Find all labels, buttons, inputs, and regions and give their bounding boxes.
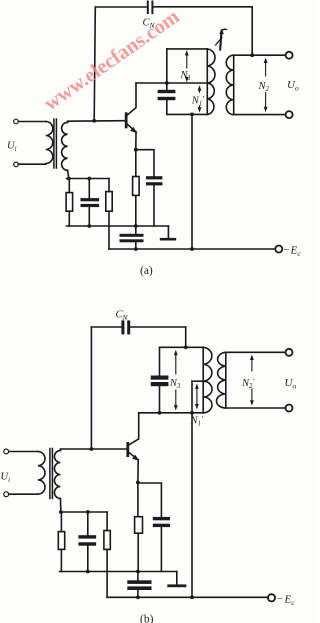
node: emitter node dot (b) [136, 481, 140, 485]
transistor Q2 collector (b) [129, 413, 139, 445]
label: -Ec (a) [283, 245, 301, 259]
wire: tank bottom wire (a) [167, 113, 208, 115]
node: dot emitter column on rail A (b) [136, 570, 140, 574]
arrow: N1 winding measure (a) [186, 53, 188, 69]
wire: secondary bottom lead to divider rail (b) [59, 499, 62, 513]
node: emitter node dot (a) [134, 148, 138, 152]
terminal: -Ec (b) [268, 594, 275, 601]
wire: C_N right leg down to tank top (b) [185, 327, 187, 347]
wire: tank top wire (b) [160, 346, 204, 348]
terminal: input top (b) [4, 449, 9, 454]
node: divider rail left dot (a) [67, 177, 71, 181]
wire: tank bottom wire from collector (b) [139, 412, 204, 414]
terminal: output bottom (b) [286, 405, 293, 412]
transistor Q1 collector (a) [128, 83, 137, 115]
transistor Q1 base bar (a) [125, 112, 128, 128]
capacitor C3 supply bypass (b) [127, 580, 151, 590]
node: dot emitter column on rail A (a) [134, 224, 138, 228]
wire: emitter vertical to node (b) [137, 460, 139, 483]
wire: N2 bottom wire to output terminal (a) [234, 114, 286, 116]
node: dot C_N leg on N2 top wire (a) [250, 53, 254, 57]
wire: bias divider top rail (b) [60, 511, 107, 513]
svg-text:–: – [277, 593, 284, 604]
wire: tap lead down to rail B (b) [191, 381, 193, 597]
inductor L4 secondary N2' (b) [225, 352, 227, 408]
svg-text:Uo: Uo [285, 377, 297, 391]
terminal: -Ec (a) [275, 246, 282, 253]
wire: top neutralization wire left segment (a) [95, 6, 146, 8]
svg-text:N1′: N1′ [190, 415, 204, 428]
node: dot tank bottom / down lead (a) [190, 113, 194, 117]
svg-text:Ec: Ec [290, 245, 302, 259]
svg-text:–: – [283, 245, 290, 256]
terminal: output top (a) [286, 52, 293, 59]
capacitor C_N (b) plates [121, 320, 130, 334]
node: junction dot base/C_N (b) [90, 447, 94, 451]
resistor R3 emitter (a) [135, 150, 137, 177]
label: -Ec (b) [277, 593, 296, 607]
transformer T2 primary winding (b) [38, 452, 45, 495]
wire: R2 bottom leg down to rail B corner (a) [108, 211, 110, 249]
arrow: N1' winding measure (b) [196, 386, 198, 407]
capacitor C_N (a) plates [147, 1, 154, 15]
terminal: output top (b) [286, 349, 293, 356]
terminal: input bottom (a) [14, 162, 19, 167]
wire: R2 bottom leg down to rail B corner (b) [106, 549, 108, 597]
transformer T2 secondary winding (b) [54, 451, 60, 499]
node: dot C1 bottom on rail A (b) [86, 570, 90, 574]
resistor R1 (a) [68, 179, 70, 193]
wire: top neutralization wire right segment (a) [153, 6, 252, 8]
label: N1' (a) [191, 93, 205, 108]
wire: C_N left leg down to base node (b) [90, 327, 92, 449]
node: dot tank bottom / down lead (b) [190, 411, 194, 415]
node: junction dot base/C_N (a) [92, 119, 96, 123]
wire: tank left vertical lower (a) [166, 100, 168, 114]
svg-text:Ui: Ui [1, 472, 11, 485]
wire: tank left vertical lower (b) [159, 386, 161, 413]
inductor L3 winding N3+N1' (b) [202, 347, 204, 413]
svg-text:(a): (a) [140, 265, 153, 277]
wire: bottom supply rail B (a) [109, 248, 275, 250]
svg-text:Ec: Ec [284, 594, 296, 608]
wire: input bottom lead (b) [9, 493, 38, 495]
wire: N2' bottom wire to output terminal (b) [226, 407, 286, 409]
svg-text:N2: N2 [258, 81, 270, 93]
wire: tank down lead to rail B (a) [191, 114, 193, 249]
label: N3 (b) [169, 376, 183, 390]
transistor Q1 emitter with arrow (a) [128, 124, 137, 132]
wire: bias bottom rail A (b) [60, 571, 177, 573]
node: dot tank bottom / cap vertical (b) [158, 411, 162, 415]
wire: tank top wire (a) [167, 48, 208, 50]
ground symbol (b) [176, 572, 178, 585]
wire: C_N left leg down to base node (a) [94, 7, 95, 121]
wire: top neutralization wire right segment (b) [130, 326, 185, 328]
node: dot C1 top (a) [87, 177, 91, 181]
svg-text:N1′: N1′ [191, 95, 205, 108]
wire: emitter vertical to node (a) [135, 132, 137, 150]
resistor R3 emitter (b) [137, 482, 139, 516]
wire: secondary top to base (b) [60, 449, 126, 451]
node: dot middle wire / tank left vertical (a) [165, 81, 169, 85]
transistor Q2 emitter with arrow (b) [129, 453, 138, 460]
terminal: input top (a) [14, 119, 19, 124]
transformer T1 secondary winding (a) [62, 122, 68, 170]
wire: tank left vertical upper (a) [166, 49, 168, 90]
resistor R2 (a) [108, 179, 110, 192]
svg-text:Ui: Ui [7, 141, 17, 154]
node: dot tank lead on rail B (b) [190, 595, 194, 599]
resistor R1 (b) [60, 512, 62, 532]
capacitor C2 emitter bypass (b) [153, 517, 170, 527]
label: N1 (a) [180, 69, 194, 83]
arrow: N2 winding measure (a) [265, 60, 267, 110]
transformer T2 core (b) [50, 449, 53, 499]
capacitor C1 (b) [87, 512, 89, 535]
wire: bias divider top rail (a) [67, 178, 110, 180]
capacitor C3 supply bypass (a) [120, 234, 144, 243]
wire: input top lead (b) [9, 451, 38, 453]
transformer T1 core (a) [54, 119, 57, 168]
wire: bottom supply rail B (b) [107, 596, 268, 598]
wire: secondary bottom lead to divider rail (a) [68, 170, 69, 178]
node: dot bypass cap on rail B (b) [136, 595, 140, 599]
svg-text:CN: CN [116, 310, 129, 323]
wire: collector to tank tap middle wire (a) [136, 82, 207, 84]
wire: bias bottom rail A (a) [67, 225, 169, 227]
terminal: input bottom (b) [4, 492, 9, 497]
wire: input bottom lead (a) [18, 163, 45, 165]
transformer T1 primary winding (a) [46, 122, 53, 164]
arrow: N3 winding measure (b) [175, 353, 177, 408]
wire: secondary top to base (a) [68, 121, 125, 123]
node: dot C1 bottom on rail A (a) [87, 224, 91, 228]
node: dot bypass cap on rail B (a) [134, 247, 138, 251]
wire: tap N1' horizontal (b) [192, 380, 203, 382]
wire: top neutralization wire left segment (b) [91, 326, 121, 328]
wire: tank left vertical upper (b) [159, 347, 161, 375]
wire: input top lead (a) [18, 121, 45, 123]
wire: jog emitter to bypass C2 (a) [136, 150, 154, 177]
wire: N2' top wire to output terminal (b) [226, 351, 286, 353]
transistor Q2 base bar (b) [126, 442, 129, 457]
node: dot C_N leg on tank top (b) [184, 345, 188, 349]
wire: jog emitter to bypass C2 (b) [138, 483, 162, 517]
terminal: output bottom (a) [286, 111, 293, 118]
arrow: tuning/coupling arrow (a) [216, 29, 227, 49]
capacitor C1 (a) [88, 179, 90, 199]
wire: N2 top wire to output terminal (a) [234, 54, 286, 56]
node: dot tank lead on rail B (a) [190, 247, 194, 251]
svg-text:(b): (b) [140, 614, 154, 623]
arrow: N2' winding measure (b) [251, 357, 253, 403]
capacitor C4 tank (a) [158, 90, 176, 100]
wire: C_N right leg down to N2 top (a) [251, 7, 253, 55]
node: divider rail left dot (b) [59, 510, 63, 514]
arrow: N1' winding measure (a) [199, 88, 201, 111]
svg-text:N2′: N2′ [241, 377, 255, 390]
svg-text:Uo: Uo [287, 79, 299, 93]
capacitor C4 tank (b) [151, 376, 169, 387]
capacitor C2 emitter bypass (a) [146, 176, 162, 185]
ground symbol (a) [167, 226, 169, 238]
node: dot C1 top (b) [86, 510, 90, 514]
inductor L2 secondary N2 (a) [233, 55, 235, 114]
inductor L1 primary winding N1+N1' (a) [206, 49, 208, 115]
resistor R2 (b) [106, 512, 108, 531]
